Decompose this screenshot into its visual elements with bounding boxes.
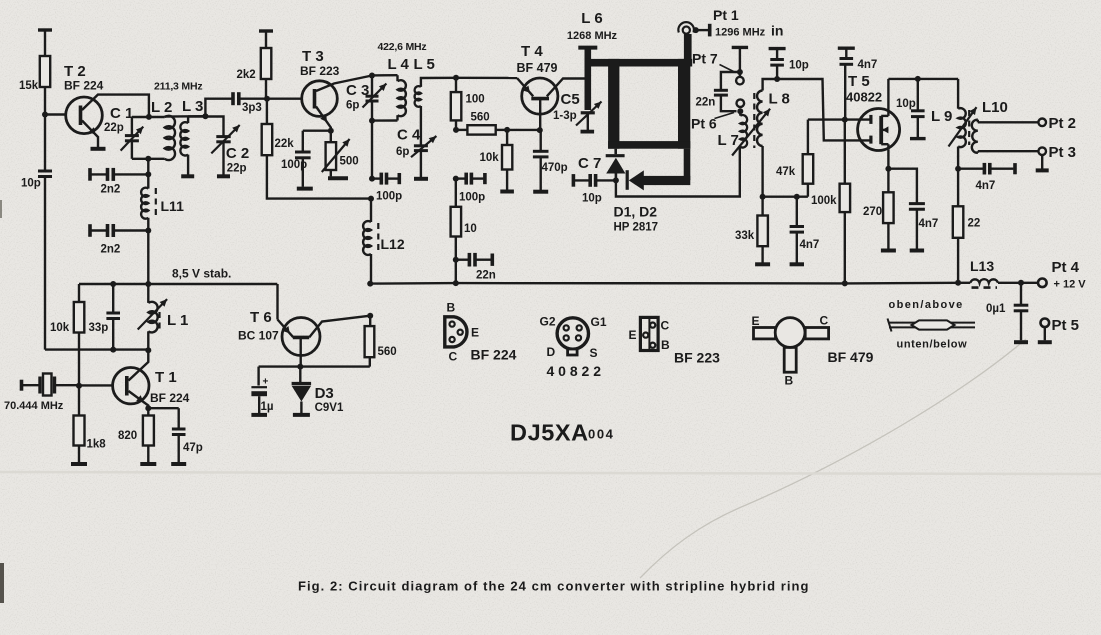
wire drain row (888, 78, 958, 80)
node T1 emitter (145, 405, 151, 411)
10k t4 ground (500, 190, 514, 194)
label 22n bottom (476, 270, 496, 282)
label C1 (110, 105, 133, 122)
capacitor 22n bottom (456, 253, 493, 267)
resistor 10 (451, 179, 462, 237)
label pin B BF224 (447, 301, 456, 315)
wire emitter to 820 (147, 408, 149, 415)
wire L3 node up and right to 3p3 (205, 99, 233, 117)
node tank L2 top (146, 114, 152, 120)
svg-text:E: E (752, 314, 760, 328)
label unten/below (897, 339, 968, 351)
Pt6 pointer (715, 113, 735, 119)
label L6 (581, 10, 602, 27)
wire ring to Pt1 (684, 34, 692, 60)
label L1 (167, 312, 188, 329)
wire 8.5V rail (79, 283, 277, 285)
wire D node down and right to L7 (616, 147, 740, 197)
capacitor C3 6p variable (363, 76, 387, 121)
svg-text:422,6 MHz: 422,6 MHz (378, 41, 427, 53)
label 6p of C4 (396, 146, 409, 158)
label 10p (21, 178, 41, 190)
svg-text:E: E (471, 326, 479, 340)
label 4n7 b (800, 239, 820, 251)
node rail L1 (145, 281, 151, 287)
label 470p (542, 162, 568, 174)
inductor L10 (972, 120, 1039, 153)
svg-text:820: 820 (118, 430, 137, 442)
node 2n2 upper (145, 171, 151, 177)
svg-text:B: B (661, 338, 670, 352)
label L9 (931, 108, 952, 125)
label 70.444 MHz (4, 400, 64, 412)
svg-text:L 3: L 3 (182, 98, 203, 115)
svg-text:1268 MHz: 1268 MHz (567, 30, 618, 42)
scratch line (640, 339, 1026, 578)
node Pt7 (737, 69, 743, 75)
label 10p of C7 (582, 193, 602, 205)
inductor L12 (363, 199, 371, 284)
resistor 560 regulator (365, 326, 375, 357)
svg-text:BF 224: BF 224 (471, 347, 517, 363)
label Pt2 (1049, 115, 1077, 132)
label BF479 of T4 (517, 61, 558, 75)
T4 collector wire (547, 79, 585, 97)
node Pt6 (737, 108, 743, 114)
capacitor 22n mixer (714, 72, 740, 111)
jack Pt6 (737, 99, 745, 107)
jack Pt5 (1041, 319, 1050, 341)
capacitor C1 22p variable (121, 117, 144, 159)
label pin C BF224 (449, 350, 458, 364)
wire base node to 22k (266, 99, 268, 124)
label Pt7 (692, 51, 718, 67)
svg-text:B: B (785, 374, 794, 388)
label 100p right (459, 192, 485, 204)
label 422.6 MHz (378, 41, 427, 53)
label 10p drain (896, 98, 916, 110)
node 4n7b top (794, 194, 800, 200)
label pin B BF479 (785, 374, 794, 388)
wire L2 to L3 node (165, 115, 206, 118)
label L10 (982, 99, 1008, 116)
wire L8 node right (763, 195, 808, 197)
resistor 10k t4 (502, 130, 512, 190)
label Pt6 (691, 116, 717, 132)
svg-text:3p3: 3p3 (242, 102, 262, 114)
T5 source wire (887, 150, 889, 169)
capacitor 100p bypass (295, 131, 311, 187)
svg-text:L13: L13 (970, 258, 994, 274)
label DJ5XA (510, 420, 589, 446)
label 3p3 (242, 102, 262, 114)
diode D2 with stripline lead (627, 149, 690, 191)
svg-text:+ 12 V: + 12 V (1054, 279, 1087, 291)
svg-text:G1: G1 (591, 315, 607, 329)
resistor 22 (953, 169, 964, 283)
wire crystal to T1 base (79, 384, 113, 386)
wire 10 resistor chain (455, 237, 457, 284)
diode D1 (606, 149, 626, 181)
inductor L4 (398, 75, 406, 120)
capacitor 1u electrolytic (251, 367, 268, 413)
svg-text:270: 270 (863, 206, 882, 218)
label 100p left (376, 191, 402, 203)
label 4n7 source (919, 218, 939, 230)
svg-text:100p: 100p (459, 192, 485, 204)
svg-text:2n2: 2n2 (101, 184, 121, 196)
label pin C BF223 (661, 319, 670, 333)
svg-text:10k: 10k (480, 152, 500, 164)
label 0u1 (986, 303, 1006, 315)
node 100p left (369, 176, 375, 182)
label T2 (64, 63, 86, 80)
node L9 bottom (955, 166, 961, 172)
svg-text:BF 479: BF 479 (517, 61, 558, 75)
label 15k (19, 80, 39, 92)
label L2 (151, 99, 172, 116)
33k ground (755, 262, 770, 266)
svg-text:unten/below: unten/below (897, 339, 968, 351)
svg-text:C 1: C 1 (110, 105, 133, 122)
label C7 (578, 155, 601, 172)
label Pt5 (1052, 317, 1080, 334)
svg-text:Pt 6: Pt 6 (691, 116, 717, 132)
svg-text:C 4: C 4 (397, 127, 421, 144)
zener D3 C9V1 (292, 367, 312, 413)
capacitor 0u1 (1014, 283, 1029, 341)
jack Pt3 (1038, 147, 1046, 155)
svg-text:6p: 6p (396, 146, 409, 158)
node T4 bottom (537, 127, 543, 133)
wire L4 bottom edge (372, 119, 398, 121)
svg-text:1k8: 1k8 (87, 439, 107, 451)
capacitor 47p (148, 408, 185, 462)
resistor 560 horizontal (456, 125, 507, 134)
svg-text:Pt 4: Pt 4 (1052, 259, 1080, 276)
label pin D (547, 345, 556, 359)
Pt7 pointer (720, 65, 736, 73)
500 ground (328, 176, 348, 180)
svg-text:S: S (590, 346, 598, 360)
label T6 (250, 309, 272, 326)
mosfet T5 (858, 109, 900, 151)
node L3 top (202, 113, 208, 119)
svg-text:L11: L11 (161, 198, 185, 214)
svg-text:D1, D2: D1, D2 (614, 204, 658, 220)
svg-text:L 5: L 5 (414, 56, 435, 73)
D3 ground (293, 413, 310, 417)
node crystal (76, 383, 82, 389)
label Pt1 (713, 7, 739, 23)
node 22k return (368, 196, 374, 202)
L11 core dashes (155, 188, 157, 216)
svg-text:oben/above: oben/above (889, 299, 964, 311)
label D3 (315, 385, 334, 402)
T3 collector wire (316, 76, 372, 92)
label 2n2 lower (101, 244, 121, 256)
svg-text:4n7: 4n7 (919, 218, 939, 230)
svg-text:in: in (771, 23, 783, 39)
label 560 regulator (378, 346, 397, 358)
node bus L12 (367, 281, 373, 287)
label 22k (275, 138, 295, 150)
wire 10k to crystal node (78, 333, 80, 386)
label 22n mixer (696, 97, 716, 109)
pinout 40822 pin S (576, 335, 581, 340)
L12 core dashes (377, 223, 379, 252)
transistor T4 (522, 78, 558, 114)
paper crease (0, 472, 1101, 474)
node rail 33p (110, 281, 116, 287)
svg-text:33k: 33k (735, 230, 755, 242)
inductor L9 variable (949, 79, 977, 169)
resistor 100k (840, 120, 851, 284)
capacitor 4n7 gate (838, 48, 855, 119)
label T5 (848, 73, 870, 90)
pinout BF479 package (754, 318, 829, 373)
svg-text:22p: 22p (104, 122, 124, 134)
stripline legend symbol (888, 319, 976, 332)
svg-text:T 2: T 2 (64, 63, 86, 80)
node 2n2 lower (145, 228, 151, 234)
label L4 (388, 56, 410, 73)
label BF224 of T2 (64, 79, 104, 93)
resistor 270 (883, 169, 894, 249)
resistor 33k (757, 216, 768, 263)
pinout BF223 pin B (650, 343, 655, 348)
pinout 40822 pin D (564, 335, 569, 340)
label T3 (302, 48, 324, 65)
svg-text:E: E (629, 328, 637, 342)
resistor 47k (803, 120, 814, 197)
svg-text:500: 500 (340, 156, 359, 168)
label pin E BF479 (752, 314, 760, 328)
wire rail to T6 base (276, 284, 278, 320)
label 10k t4 (480, 152, 500, 164)
svg-text:BF 479: BF 479 (828, 349, 874, 365)
svg-text:10p: 10p (582, 193, 602, 205)
label C4 (397, 127, 421, 144)
wire tank top edge (132, 116, 165, 118)
wire tank bottom edge (132, 158, 165, 160)
svg-text:T 3: T 3 (302, 48, 324, 65)
svg-text:47k: 47k (776, 166, 796, 178)
svg-text:100k: 100k (811, 195, 837, 207)
svg-text:22n: 22n (476, 270, 496, 282)
svg-text:Fig. 2: Circuit diagram of the: Fig. 2: Circuit diagram of the 24 cm con… (298, 579, 810, 594)
L9L10 core dashes (968, 110, 970, 145)
T2 emitter wire (82, 121, 98, 148)
resistor 820 (143, 416, 154, 446)
hybrid ring bottom bar (608, 141, 690, 149)
svg-text:T 1: T 1 (155, 369, 177, 386)
svg-text:HP 2817: HP 2817 (614, 222, 659, 234)
wire crystal node to 1k8 (78, 386, 80, 416)
inductor L7 variable (732, 109, 770, 156)
label pin E BF223 (629, 328, 637, 342)
stripline L6 (578, 48, 597, 110)
capacitor C7 10p (573, 174, 616, 187)
transformer core dashes L7L8 (753, 93, 755, 148)
wire base node down to 10p (44, 115, 46, 172)
terminal top of 2k2 (259, 31, 273, 48)
node 10k top (504, 127, 510, 133)
svg-text:2n2: 2n2 (101, 244, 121, 256)
T4 emitter wire (517, 78, 533, 96)
label 100k (811, 195, 837, 207)
label BF479 pinout (828, 349, 874, 365)
svg-text:C5: C5 (561, 91, 580, 108)
svg-text:47p: 47p (183, 442, 203, 454)
svg-text:10p: 10p (789, 60, 809, 72)
pinout 40822 pin G2 (564, 325, 569, 330)
capacitor C5 1-3p variable (576, 102, 602, 131)
node T6 emitter (297, 364, 303, 370)
label 47k (776, 166, 796, 178)
svg-text:4n7: 4n7 (976, 180, 996, 192)
label 33p (89, 322, 109, 334)
label 4n7 output (976, 180, 996, 192)
node T3 emitter (328, 128, 334, 134)
label 10p input (789, 60, 809, 72)
label 560 horizontal (471, 112, 490, 124)
L13 dashes (972, 286, 998, 289)
svg-text:4n7: 4n7 (858, 59, 878, 71)
svg-text:L10: L10 (982, 99, 1008, 116)
svg-text:0µ1: 0µ1 (986, 303, 1006, 315)
svg-text:C: C (820, 314, 829, 328)
wire rail corner to 10k (78, 284, 80, 302)
node bus 22 (955, 280, 961, 286)
node tank L2 bottom (145, 156, 151, 162)
transistor T3 (302, 81, 338, 117)
svg-text:10k: 10k (50, 322, 70, 334)
label C3 (346, 82, 369, 99)
0u1 ground (1014, 340, 1028, 344)
node G1 bias (842, 117, 848, 123)
jack Pt7 (736, 77, 744, 85)
label pin E BF224 (471, 326, 479, 340)
pinout BF223 pin E (643, 333, 648, 338)
svg-text:BF 224: BF 224 (64, 79, 104, 93)
inductor L8 (757, 79, 777, 216)
svg-text:100p: 100p (376, 191, 402, 203)
svg-text:L 6: L 6 (581, 10, 602, 27)
transistor T2 (66, 97, 103, 134)
wire G1 row (808, 118, 870, 120)
47p ground (171, 462, 186, 466)
node T5 source (885, 166, 891, 172)
jack Pt4 (1038, 279, 1047, 288)
label L7 (718, 132, 739, 149)
svg-text:BC 107: BC 107 (238, 329, 279, 343)
T6 emitter wire (278, 320, 294, 338)
node bus 10 (453, 280, 459, 286)
capacitor 4n7 b (790, 197, 804, 263)
svg-text:Pt 2: Pt 2 (1049, 115, 1077, 132)
svg-text:2k2: 2k2 (237, 69, 256, 81)
T6 collector wire (309, 316, 370, 338)
svg-text:L12: L12 (381, 236, 405, 252)
svg-text:BF 223: BF 223 (300, 64, 340, 78)
wire 820 to ground (147, 446, 149, 463)
wire base to T2 (45, 113, 66, 115)
wire L4 top edge (372, 74, 398, 77)
svg-text:D3: D3 (315, 385, 334, 402)
node L8 top (774, 76, 780, 82)
wire 10k node to emitter node (507, 129, 540, 131)
node 100p right (453, 176, 459, 182)
inductor L11 (141, 174, 148, 230)
inductor L3 (180, 117, 205, 175)
svg-text:560: 560 (378, 346, 397, 358)
pinout BF224 pin B (450, 322, 455, 327)
label pin G2 (540, 315, 556, 329)
270 ground (881, 249, 896, 253)
resistor 10k osc (74, 302, 85, 333)
wire base node to T3 (267, 97, 302, 99)
label 4n7 gate (858, 59, 878, 71)
wire left column to 33p node (45, 348, 148, 350)
svg-text:22n: 22n (696, 97, 716, 109)
1u ground (251, 413, 267, 417)
wire 560b top lead (369, 316, 371, 326)
label +12V (1054, 279, 1087, 291)
label D1, D2 (614, 204, 658, 220)
hybrid ring left bar (608, 59, 619, 149)
svg-text:10p: 10p (21, 178, 41, 190)
label 33k (735, 230, 755, 242)
svg-text:C9V1: C9V1 (315, 402, 344, 414)
label 47p (183, 442, 203, 454)
T3 emitter wire (316, 107, 331, 131)
wire base row to T4 (456, 77, 517, 80)
label L8 (769, 91, 790, 108)
capacitor C2 22p variable (205, 117, 239, 175)
svg-text:B: B (447, 301, 456, 315)
svg-text:C: C (661, 319, 670, 333)
C4 ground (414, 177, 428, 181)
label 40822 of T5 (846, 90, 882, 105)
label T4 (521, 43, 543, 60)
4n7 b ground (790, 262, 804, 266)
node 100k bus (842, 280, 848, 286)
wire L11 chain to rail (147, 231, 149, 285)
node D1 anode (613, 177, 619, 183)
node 33p bottom (110, 347, 116, 353)
470p ground (533, 190, 548, 194)
node L4 top (369, 73, 375, 79)
capacitor 470p (533, 130, 549, 190)
inductor L2 (165, 116, 175, 160)
svg-text:10p: 10p (896, 98, 916, 110)
svg-text:Pt 5: Pt 5 (1052, 317, 1080, 334)
wire 560b bottom lead (369, 357, 371, 366)
label 1k8 (87, 439, 107, 451)
1k8 ground (71, 462, 87, 466)
node T3 base (264, 96, 270, 102)
label pin S (590, 346, 598, 360)
jack Pt2 (1038, 119, 1046, 127)
caption (298, 579, 810, 594)
label 100 (466, 94, 485, 106)
pinout BF224 pin C (450, 337, 455, 342)
transistor T6 (282, 318, 320, 356)
trimmer 500 (322, 131, 350, 177)
label C5 (561, 91, 580, 108)
edge smudge (0, 200, 4, 603)
